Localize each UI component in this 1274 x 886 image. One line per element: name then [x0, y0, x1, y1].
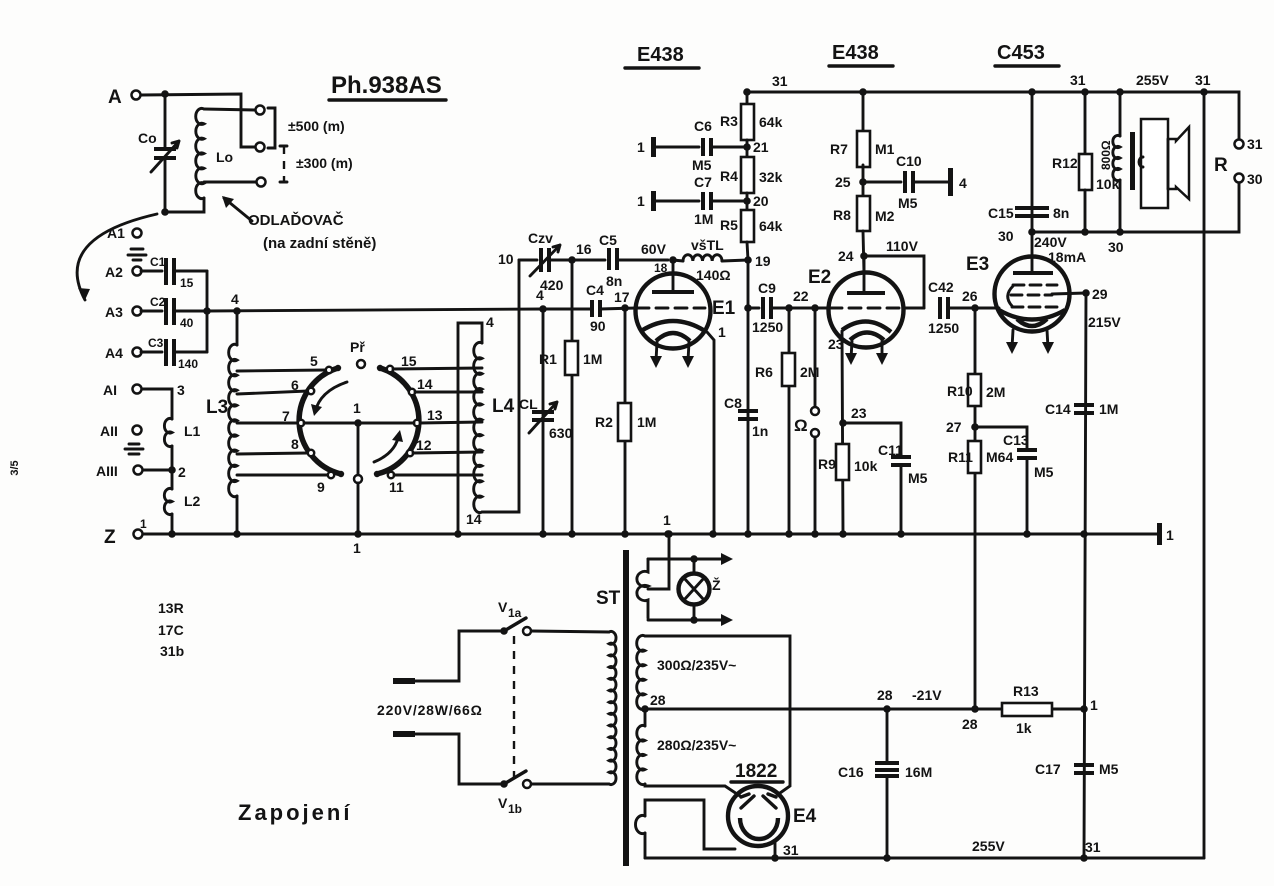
svg-text:C5: C5	[599, 232, 617, 248]
svg-text:220V/28W/66Ω: 220V/28W/66Ω	[377, 702, 483, 718]
svg-text:10k: 10k	[1096, 176, 1120, 192]
svg-text:A: A	[108, 87, 122, 108]
svg-text:12: 12	[416, 437, 432, 453]
svg-text:10k: 10k	[854, 458, 878, 474]
svg-text:31: 31	[772, 73, 788, 89]
svg-text:L3: L3	[206, 397, 228, 418]
svg-text:8n: 8n	[606, 273, 622, 289]
svg-text:C6: C6	[694, 118, 712, 134]
svg-text:Př: Př	[350, 339, 365, 355]
svg-text:31: 31	[783, 842, 799, 858]
svg-text:17: 17	[614, 289, 630, 305]
svg-text:L2: L2	[184, 493, 201, 509]
svg-text:1: 1	[663, 512, 671, 528]
svg-text:C453: C453	[997, 42, 1045, 64]
svg-text:30: 30	[998, 228, 1014, 244]
svg-text:800Ω: 800Ω	[1099, 140, 1113, 170]
svg-text:16: 16	[576, 241, 592, 257]
svg-text:M1: M1	[875, 141, 895, 157]
svg-text:E438: E438	[637, 44, 684, 66]
svg-text:R6: R6	[755, 364, 773, 380]
svg-text:64k: 64k	[759, 114, 783, 130]
svg-text:4: 4	[486, 314, 494, 330]
svg-text:140Ω: 140Ω	[696, 267, 731, 283]
svg-text:25: 25	[835, 174, 851, 190]
svg-text:R12: R12	[1052, 155, 1078, 171]
svg-text:26: 26	[962, 288, 978, 304]
svg-text:Ž: Ž	[712, 576, 721, 593]
svg-text:31: 31	[1085, 839, 1101, 855]
svg-text:2M: 2M	[800, 364, 819, 380]
svg-text:29: 29	[1092, 286, 1108, 302]
svg-text:R7: R7	[830, 141, 848, 157]
svg-text:M5: M5	[1099, 761, 1119, 777]
svg-text:19: 19	[755, 253, 771, 269]
svg-text:R10: R10	[947, 383, 973, 399]
svg-text:215V: 215V	[1088, 314, 1121, 330]
svg-text:27: 27	[946, 419, 962, 435]
svg-text:18: 18	[654, 261, 668, 275]
svg-text:1: 1	[718, 324, 726, 340]
svg-text:13: 13	[427, 407, 443, 423]
svg-text:R4: R4	[720, 168, 738, 184]
svg-text:±300 (m): ±300 (m)	[296, 155, 353, 171]
svg-text:1: 1	[637, 139, 645, 155]
svg-text:R9: R9	[818, 456, 836, 472]
svg-text:L1: L1	[184, 423, 201, 439]
svg-text:1a: 1a	[508, 606, 522, 620]
svg-text:C2: C2	[150, 295, 166, 309]
svg-text:1M: 1M	[694, 211, 713, 227]
svg-text:1: 1	[140, 517, 147, 531]
svg-text:6: 6	[291, 377, 299, 393]
svg-text:R2: R2	[595, 414, 613, 430]
svg-text:M64: M64	[986, 449, 1013, 465]
svg-text:300Ω/235V~: 300Ω/235V~	[657, 657, 736, 673]
svg-text:1k: 1k	[1016, 720, 1032, 736]
svg-text:V: V	[498, 599, 508, 615]
svg-text:R: R	[1214, 155, 1228, 176]
svg-text:32k: 32k	[759, 169, 783, 185]
svg-text:8: 8	[291, 436, 299, 452]
svg-text:630: 630	[549, 425, 573, 441]
svg-text:Ω: Ω	[794, 416, 808, 435]
svg-text:C3: C3	[148, 336, 164, 350]
svg-text:3/5: 3/5	[9, 460, 21, 475]
svg-text:E3: E3	[966, 254, 989, 275]
svg-text:Zapojení: Zapojení	[238, 800, 352, 825]
svg-text:4: 4	[231, 291, 239, 307]
svg-text:E4: E4	[793, 806, 817, 827]
svg-text:1822: 1822	[735, 761, 777, 782]
svg-text:AI: AI	[103, 382, 117, 398]
svg-text:M2: M2	[875, 208, 895, 224]
svg-text:2: 2	[178, 464, 186, 480]
svg-text:1: 1	[353, 540, 361, 556]
svg-text:R3: R3	[720, 113, 738, 129]
svg-text:15: 15	[180, 276, 194, 290]
svg-text:3: 3	[177, 382, 185, 398]
svg-text:R13: R13	[1013, 683, 1039, 699]
svg-text:Lo: Lo	[216, 149, 233, 165]
svg-text:C1: C1	[150, 255, 166, 269]
svg-text:E1: E1	[712, 298, 736, 319]
svg-text:28: 28	[650, 692, 666, 708]
svg-text:C42: C42	[928, 279, 954, 295]
svg-text:10: 10	[498, 251, 514, 267]
svg-text:4: 4	[959, 175, 967, 191]
svg-text:30: 30	[1247, 171, 1263, 187]
svg-text:15: 15	[401, 353, 417, 369]
svg-text:22: 22	[793, 288, 809, 304]
svg-text:A1: A1	[107, 225, 125, 241]
svg-text:1n: 1n	[752, 423, 768, 439]
svg-text:C17: C17	[1035, 761, 1061, 777]
svg-text:18mA: 18mA	[1048, 249, 1086, 265]
svg-text:14: 14	[466, 511, 482, 527]
svg-text:11: 11	[389, 479, 404, 495]
svg-text:C11: C11	[878, 442, 903, 458]
svg-text:7: 7	[282, 408, 290, 424]
svg-text:1M: 1M	[1099, 401, 1118, 417]
svg-text:M5: M5	[1034, 464, 1054, 480]
svg-text:30: 30	[1108, 239, 1124, 255]
svg-text:C7: C7	[694, 174, 712, 190]
svg-text:M5: M5	[898, 195, 918, 211]
svg-text:40: 40	[180, 316, 194, 330]
svg-text:Ph.938AS: Ph.938AS	[331, 72, 442, 99]
svg-text:1250: 1250	[752, 319, 783, 335]
svg-text:C14: C14	[1045, 401, 1071, 417]
svg-text:280Ω/235V~: 280Ω/235V~	[657, 737, 736, 753]
svg-text:R11: R11	[948, 449, 973, 465]
svg-text:17C: 17C	[158, 622, 184, 638]
svg-text:C4: C4	[586, 282, 604, 298]
svg-text:1b: 1b	[508, 802, 522, 816]
svg-text:31: 31	[1195, 72, 1211, 88]
svg-text:13R: 13R	[158, 600, 184, 616]
svg-text:E2: E2	[808, 267, 831, 288]
svg-text:8n: 8n	[1053, 205, 1069, 221]
svg-text:1: 1	[353, 400, 361, 416]
svg-text:90: 90	[590, 318, 606, 334]
svg-text:C8: C8	[724, 395, 742, 411]
svg-text:Czv: Czv	[528, 230, 553, 246]
svg-text:CL: CL	[519, 396, 538, 412]
svg-text:E438: E438	[832, 42, 879, 64]
svg-text:(na zadní stěně): (na zadní stěně)	[263, 235, 376, 252]
svg-text:255V: 255V	[1136, 72, 1169, 88]
svg-text:C13: C13	[1003, 432, 1029, 448]
svg-text:28: 28	[962, 716, 978, 732]
svg-text:Co: Co	[138, 130, 157, 146]
svg-text:R8: R8	[833, 207, 851, 223]
svg-text:1M: 1M	[637, 414, 656, 430]
svg-text:1M: 1M	[583, 351, 602, 367]
svg-text:9: 9	[317, 479, 325, 495]
svg-text:4: 4	[536, 287, 544, 303]
svg-text:110V: 110V	[886, 238, 919, 254]
svg-text:±500 (m): ±500 (m)	[288, 118, 345, 134]
svg-text:60V: 60V	[641, 241, 667, 257]
svg-text:C16: C16	[838, 764, 864, 780]
svg-text:28: 28	[877, 687, 893, 703]
svg-text:V: V	[498, 795, 508, 811]
svg-text:31b: 31b	[160, 643, 184, 659]
svg-text:1250: 1250	[928, 320, 959, 336]
svg-text:24: 24	[838, 248, 854, 264]
svg-text:14: 14	[417, 376, 433, 392]
svg-text:A3: A3	[105, 304, 123, 320]
svg-text:AII: AII	[100, 423, 118, 439]
svg-text:-21V: -21V	[912, 687, 942, 703]
svg-text:C15: C15	[988, 205, 1014, 221]
svg-text:16M: 16M	[905, 764, 932, 780]
svg-text:1: 1	[637, 193, 645, 209]
svg-text:M5: M5	[908, 470, 928, 486]
svg-text:C10: C10	[896, 153, 922, 169]
svg-text:1: 1	[1090, 697, 1098, 713]
svg-text:C9: C9	[758, 280, 776, 296]
svg-text:AIII: AIII	[96, 463, 118, 479]
svg-text:M5: M5	[692, 157, 712, 173]
svg-text:všTL: všTL	[691, 237, 724, 253]
svg-text:31: 31	[1247, 136, 1263, 152]
svg-text:A4: A4	[105, 345, 123, 361]
svg-text:A2: A2	[105, 264, 123, 280]
svg-text:64k: 64k	[759, 218, 783, 234]
svg-text:240V: 240V	[1034, 234, 1067, 250]
svg-text:Z: Z	[104, 527, 116, 548]
svg-text:1: 1	[1166, 527, 1174, 543]
svg-text:255V: 255V	[972, 838, 1005, 854]
svg-text:R5: R5	[720, 217, 738, 233]
svg-text:5: 5	[310, 353, 318, 369]
svg-text:140: 140	[178, 357, 198, 371]
svg-text:ST: ST	[596, 588, 621, 609]
svg-text:ODLAĎOVAČ: ODLAĎOVAČ	[248, 211, 344, 229]
svg-text:23: 23	[851, 405, 867, 421]
svg-text:2M: 2M	[986, 384, 1005, 400]
svg-text:20: 20	[753, 193, 769, 209]
svg-text:21: 21	[753, 139, 769, 155]
svg-text:L4: L4	[492, 396, 515, 417]
svg-text:31: 31	[1070, 72, 1086, 88]
